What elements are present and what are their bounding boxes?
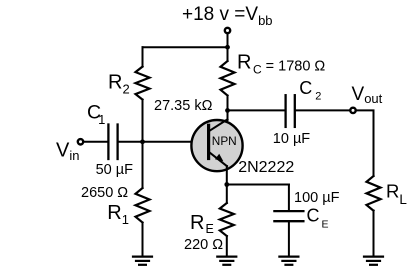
resistor R2 [136,67,150,100]
emitter arrowhead [215,154,223,162]
resistor RL [367,176,381,211]
wire R1 to ground [142,223,144,256]
svg-text:RC = 1780 Ω: RC = 1780 Ω [237,52,325,77]
node collector junction dot [225,108,230,113]
svg-text:R2: R2 [108,72,130,97]
wire CE to ground [288,222,290,255]
wire RL to ground [373,211,375,256]
svg-text:50 µF: 50 µF [96,162,134,178]
svg-text:CE: CE [307,206,329,231]
wire down to CE [288,185,290,211]
wire terminal to rail [227,34,229,47]
wire emitter node to CE [227,184,289,186]
svg-text:R1: R1 [107,202,129,227]
output terminal circle [350,108,355,113]
svg-text:220 Ω: 220 Ω [184,237,223,253]
node emitter junction dot [224,182,229,187]
ground under R1 [133,257,152,265]
wire C2 to Vout [296,109,350,111]
wire left branch down to R2 [142,47,144,66]
wire input terminal [78,139,83,144]
transistor base bar [207,125,210,158]
svg-text:27.35 kΩ: 27.35 kΩ [154,98,213,114]
svg-text:Vout: Vout [352,84,383,106]
ground under CE [279,257,298,265]
svg-text:+18 v =Vbb: +18 v =Vbb [182,4,273,28]
node base junction dot [140,139,145,144]
svg-text:Vin: Vin [56,140,79,164]
wire C1 to base [119,141,207,143]
supply terminal circle [225,28,230,33]
ground under RE [217,257,236,265]
svg-text:2650 Ω: 2650 Ω [81,185,128,201]
svg-text:10 µF: 10 µF [273,131,311,147]
wire RE to ground [226,236,228,256]
wire emitter node to RE [226,185,228,204]
wire base node down to R1 [142,142,144,188]
svg-text:C1: C1 [87,101,105,127]
capacitor C2 [284,95,286,127]
node top junction dot [225,45,230,50]
transistor Q1 circle [191,120,242,171]
wire R2 to base node [142,100,144,142]
svg-text:2N2222: 2N2222 [238,159,294,176]
resistor R1 [136,188,150,223]
wire RC to collector node [227,96,229,111]
capacitor CE [274,210,303,212]
resistor RC [221,61,235,96]
transistor emitter lead [210,152,228,166]
svg-text:C2: C2 [299,78,321,103]
wire collector node to transistor [227,110,229,120]
svg-text:100 µF: 100 µF [294,190,340,206]
wire Vout to RL corner [356,110,373,176]
svg-text:RL: RL [386,181,407,208]
wire emitter down [226,166,228,185]
wire top rail [143,46,228,48]
wire Vin to C1 [84,141,107,143]
ground under RL [364,257,383,265]
resistor RE [220,203,234,236]
svg-text:NPN: NPN [212,134,237,148]
wire collector node to C2 [228,109,285,111]
capacitor C1 [107,125,109,160]
svg-text:RE: RE [190,212,214,236]
wire RC branch from rail [227,47,229,61]
transistor collector lead [210,119,228,131]
